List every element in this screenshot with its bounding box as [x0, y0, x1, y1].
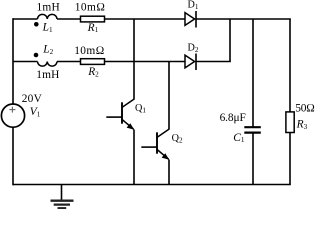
ground: [51, 185, 74, 209]
wire: second rail D2 cathode to riser: [196, 61, 231, 63]
capacitor C1: [244, 127, 260, 132]
wire: Q1 collector riser to top rail: [133, 19, 135, 99]
wire: bottom rail: [13, 184, 291, 186]
resistor R3: [286, 112, 294, 133]
wire: riser joining D2 output to top rail: [229, 19, 231, 62]
transistor Q1: [106, 99, 134, 130]
wire: capacitor branch above C1: [252, 19, 254, 127]
wire: second rail from left column to L2: [13, 61, 38, 63]
wire: left column upper segment: [12, 18, 14, 104]
wire: second rail R2 to D2 anode: [105, 61, 186, 63]
source V1: [1, 104, 24, 127]
diode D1: [185, 11, 196, 28]
resistor R1: [81, 16, 105, 22]
wire: top rail R1 to D1 anode: [105, 18, 186, 20]
wire: second rail L2 to R2: [57, 61, 81, 63]
wire: top rail from left column to L1: [13, 18, 38, 20]
resistor R2: [81, 59, 105, 65]
svg-text:1mH: 1mH: [36, 69, 59, 81]
plus sign of V1: [9, 107, 15, 113]
svg-text:1mH: 1mH: [37, 2, 60, 14]
polarity dot of L1: [34, 22, 39, 27]
wire: right column below R3: [289, 133, 291, 185]
polarity dot of L2: [34, 53, 39, 58]
svg-text:20V: 20V: [22, 93, 43, 105]
wire: capacitor branch below C1: [252, 133, 254, 185]
svg-text:10mΩ: 10mΩ: [75, 2, 105, 14]
wire: Q1 emitter drop to bottom rail: [133, 130, 135, 185]
wire: Q2 emitter drop to bottom rail: [168, 160, 170, 185]
svg-text:10mΩ: 10mΩ: [74, 45, 104, 57]
inductor L1: [38, 14, 58, 19]
inductor L2: [38, 62, 58, 67]
wire: left column lower segment below source V1: [12, 128, 14, 186]
wire: top rail D1 cathode to top-right corner: [196, 18, 291, 20]
svg-text:6.8μF: 6.8μF: [220, 112, 246, 124]
transistor Q2: [141, 129, 169, 160]
wire: top rail L1 to R1: [57, 18, 81, 20]
wire: Q2 collector riser to second rail: [168, 62, 170, 130]
wire: right column above R3: [289, 19, 291, 112]
diode D2: [185, 54, 196, 71]
svg-text:50Ω: 50Ω: [295, 103, 315, 115]
